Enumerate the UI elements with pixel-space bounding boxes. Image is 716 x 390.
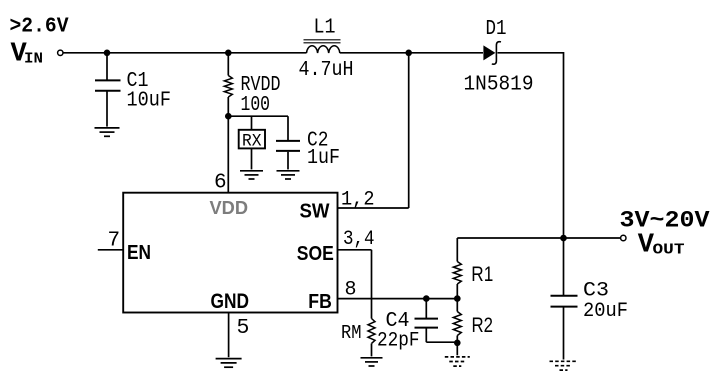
- svg-text:SW: SW: [300, 200, 331, 223]
- svg-text:1,2: 1,2: [341, 189, 375, 212]
- svg-text:>2.6V: >2.6V: [10, 16, 69, 39]
- svg-text:L1: L1: [314, 16, 336, 39]
- svg-text:R2: R2: [472, 314, 494, 337]
- svg-text:R1: R1: [471, 263, 493, 286]
- svg-text:SOE: SOE: [297, 243, 334, 265]
- svg-text:5: 5: [237, 316, 250, 340]
- svg-text:EN: EN: [127, 242, 151, 264]
- svg-text:4.7uH: 4.7uH: [299, 59, 354, 82]
- svg-text:OUT: OUT: [653, 243, 685, 259]
- svg-text:7: 7: [108, 229, 121, 252]
- svg-text:22pF: 22pF: [377, 329, 420, 352]
- svg-text:6: 6: [214, 172, 227, 195]
- svg-text:1N5819: 1N5819: [464, 74, 534, 97]
- svg-text:8: 8: [345, 278, 357, 301]
- svg-text:3,4: 3,4: [343, 228, 375, 251]
- svg-text:IN: IN: [24, 52, 43, 68]
- svg-text:FB: FB: [308, 290, 332, 313]
- svg-text:RM: RM: [341, 322, 362, 344]
- svg-text:20uF: 20uF: [583, 300, 628, 323]
- svg-text:10uF: 10uF: [127, 89, 172, 112]
- svg-text:3V~20V: 3V~20V: [620, 208, 710, 234]
- svg-text:D1: D1: [486, 18, 507, 41]
- svg-text:GND: GND: [211, 290, 250, 313]
- svg-text:100: 100: [241, 94, 271, 117]
- svg-text:VDD: VDD: [210, 197, 249, 218]
- svg-text:1uF: 1uF: [307, 147, 340, 170]
- svg-text:RX: RX: [242, 131, 262, 151]
